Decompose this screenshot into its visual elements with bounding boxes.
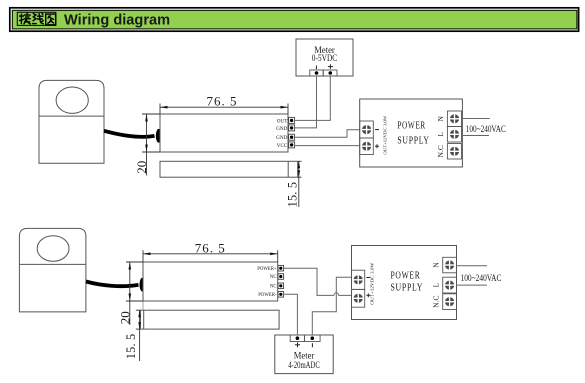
svg-text:L: L — [436, 132, 445, 137]
svg-text:GND: GND — [276, 135, 287, 141]
svg-text:OUT+12VDC 3.0W: OUT+12VDC 3.0W — [383, 115, 388, 155]
svg-text:VCC: VCC — [277, 143, 288, 149]
svg-text:0-5VDC: 0-5VDC — [312, 53, 338, 63]
svg-text:NC: NC — [270, 275, 277, 280]
svg-text:GND: GND — [276, 126, 287, 132]
svg-text:POWER-: POWER- — [258, 293, 277, 298]
svg-text:Wiring diagram: Wiring diagram — [64, 12, 170, 28]
svg-text:N.C: N.C — [431, 296, 440, 308]
svg-text:OUT: OUT — [277, 118, 288, 124]
svg-text:15. 5: 15. 5 — [286, 182, 300, 208]
svg-text:76. 5: 76. 5 — [207, 94, 238, 109]
svg-text:POWER+: POWER+ — [257, 267, 277, 272]
svg-text:20: 20 — [118, 311, 133, 324]
svg-text:SUPPLY: SUPPLY — [397, 135, 429, 147]
svg-text:L: L — [431, 282, 440, 287]
svg-text:NC: NC — [270, 285, 277, 290]
svg-text:100~240VAC: 100~240VAC — [466, 124, 506, 134]
svg-text:N.C: N.C — [436, 145, 445, 157]
svg-text:POWER: POWER — [391, 269, 421, 281]
svg-text:POWER: POWER — [397, 120, 426, 132]
svg-text:15. 5: 15. 5 — [124, 334, 138, 360]
svg-text:4-20mADC: 4-20mADC — [288, 360, 320, 370]
svg-text:N: N — [431, 262, 440, 268]
svg-text:20: 20 — [134, 161, 149, 174]
svg-text:100~240VAC: 100~240VAC — [461, 273, 502, 283]
svg-text:OUT+12VDC 3.0W: OUT+12VDC 3.0W — [370, 262, 375, 305]
svg-text:76. 5: 76. 5 — [195, 240, 226, 255]
svg-text:Meter: Meter — [294, 350, 315, 360]
svg-text:N: N — [436, 116, 445, 122]
svg-text:SUPPLY: SUPPLY — [391, 281, 424, 293]
